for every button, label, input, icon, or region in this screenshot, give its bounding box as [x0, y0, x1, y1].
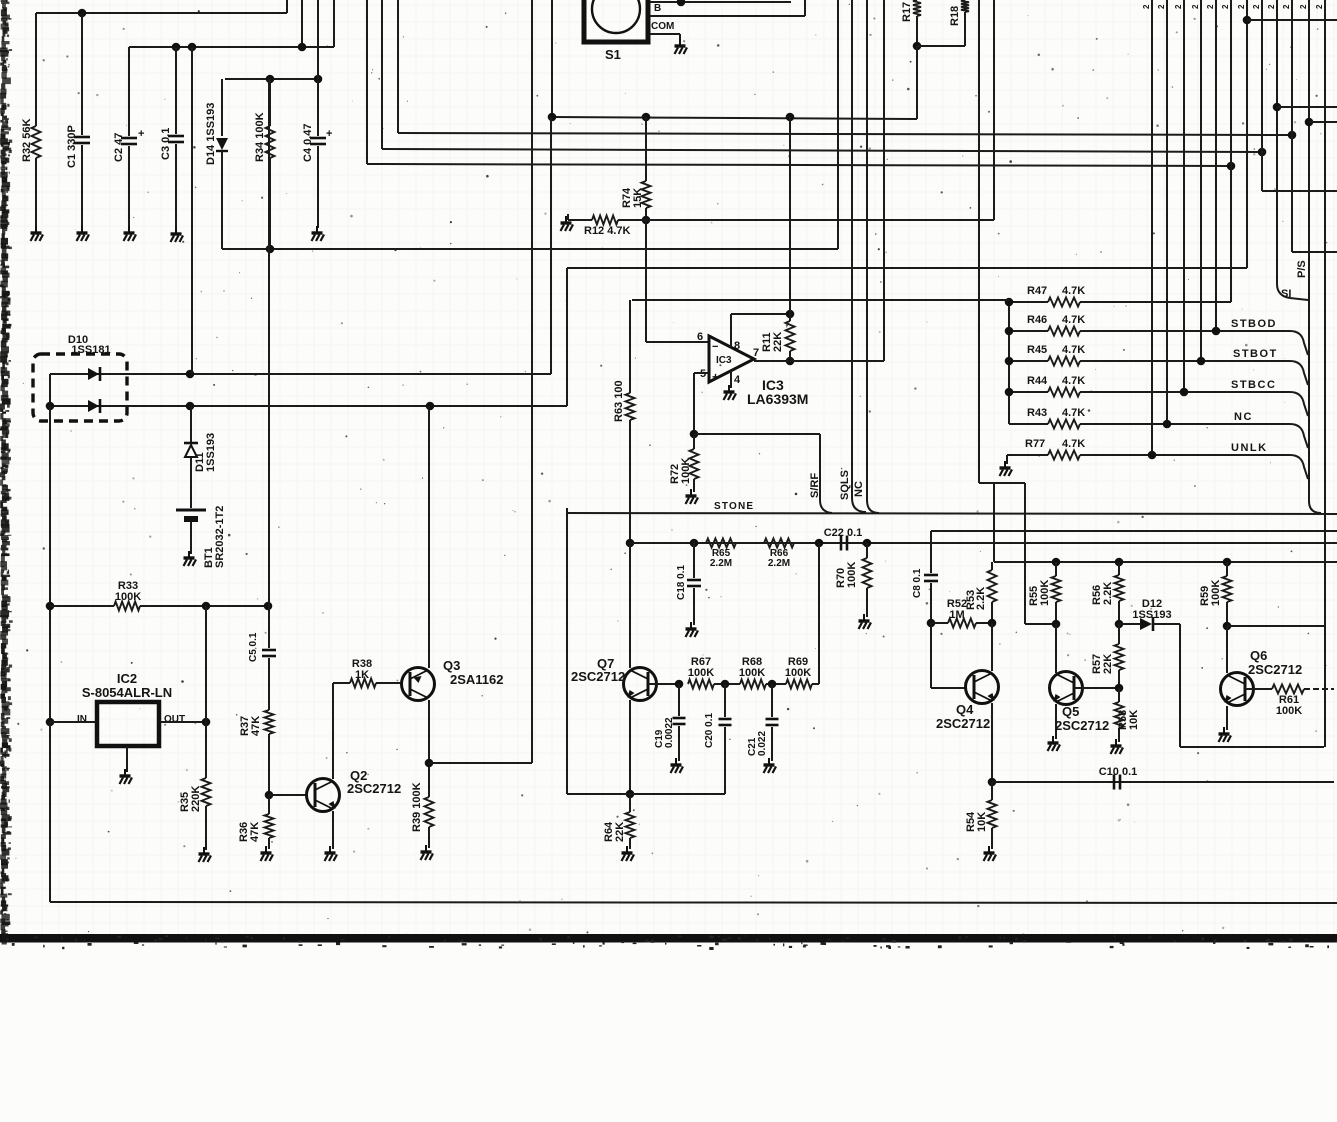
- wire IC2 IN: [50, 721, 97, 723]
- svg-text:+: +: [712, 370, 719, 384]
- wire D10 left tie x=50: [49, 374, 51, 406]
- resistor R34 100K: [269, 79, 271, 126]
- wire S1 pin B y=16: [650, 15, 805, 17]
- node (679,684): [675, 680, 684, 689]
- wire nested bus outer horizontal y=164: [367, 164, 1231, 166]
- svg-text:LA6393M: LA6393M: [747, 391, 808, 407]
- wire x=269 rail from top loop: [268, 79, 270, 648]
- wire bank bus x=1009: [1008, 300, 1010, 424]
- svg-text:2: 2: [1267, 4, 1276, 9]
- svg-text:R18: R18: [949, 6, 961, 26]
- svg-text:OUT: OUT: [164, 714, 185, 725]
- node (206,606): [202, 602, 211, 611]
- wire R43 row: [1080, 423, 1290, 425]
- node (1119,624): [1115, 620, 1124, 629]
- node (694,434): [690, 430, 699, 439]
- svg-text:10K: 10K: [1128, 710, 1140, 730]
- ground R12: [561, 216, 574, 231]
- svg-text:R45: R45: [1027, 344, 1047, 356]
- svg-text:R77: R77: [1025, 438, 1045, 450]
- wire Q5 collector: [1055, 624, 1057, 673]
- resistor R68 100K: [740, 680, 766, 689]
- wire vertical x=302 to top: [301, 0, 303, 47]
- wire pin4 stub + ground: [730, 371, 732, 388]
- node (917,46): [913, 42, 922, 51]
- wire x=532 rail from top: [531, 0, 533, 763]
- svg-text:100K: 100K: [115, 591, 141, 603]
- svg-text:Q6: Q6: [1250, 648, 1267, 663]
- svg-text:COM: COM: [651, 21, 674, 32]
- diode D14 1SS193: [221, 79, 223, 136]
- node (269,795): [265, 791, 274, 800]
- capacitor C22 0.1: [841, 536, 847, 551]
- node (190,374): [186, 370, 195, 379]
- wire IC2 OUT: [159, 721, 206, 723]
- svg-text:100K: 100K: [680, 458, 692, 484]
- svg-text:C3 0.1: C3 0.1: [160, 128, 172, 160]
- wire Q7 collector from R63: [629, 543, 631, 668]
- node (270,249): [266, 245, 275, 254]
- wire R17 junction down to y=119: [916, 46, 918, 119]
- wire Q7 base to R67 node: [648, 683, 679, 685]
- wire x=994 lower segment: [993, 483, 995, 562]
- svg-text:2: 2: [1299, 4, 1308, 9]
- wire D12 down and right: [1179, 624, 1181, 747]
- node (50,722): [46, 718, 55, 727]
- wire nested bus outer vertical x=367: [366, 0, 368, 164]
- svg-text:B: B: [654, 3, 661, 14]
- node (630,543): [626, 539, 635, 548]
- node (646,220): [642, 216, 651, 225]
- svg-text:100K: 100K: [1276, 705, 1302, 717]
- capacitor C19 0.0022: [678, 684, 680, 716]
- wire y=252 jog to right edge: [1292, 251, 1337, 253]
- ground R36: [261, 846, 274, 861]
- wire R47 row to x=1231: [1080, 301, 1231, 303]
- ground C1: [77, 226, 90, 241]
- ground R72: [686, 489, 699, 504]
- node (302,47): [298, 43, 307, 52]
- ground IC2: [120, 769, 133, 784]
- svg-text:2: 2: [1157, 4, 1166, 9]
- resistor R35 220K: [202, 778, 211, 806]
- ground R70: [859, 614, 872, 629]
- node (50,406): [46, 402, 55, 411]
- wire y=191 stub to right edge: [1262, 190, 1337, 192]
- wire pin8 stub: [730, 314, 732, 348]
- svg-text:2.2K: 2.2K: [1102, 582, 1114, 605]
- svg-text:4.7K: 4.7K: [1062, 407, 1085, 419]
- svg-text:47K: 47K: [250, 716, 262, 736]
- node (1262,152): [1258, 148, 1267, 157]
- wire Q6 collector: [1226, 626, 1228, 673]
- svg-text:R44: R44: [1027, 375, 1048, 387]
- svg-text:2SC2712: 2SC2712: [936, 716, 990, 731]
- wire C22 rail y=543: [630, 542, 1337, 544]
- svg-text:R43: R43: [1027, 407, 1047, 419]
- svg-text:47K: 47K: [249, 822, 261, 842]
- svg-text:10K: 10K: [976, 812, 988, 832]
- wire x=646 down to IC3 pin6 corner: [645, 220, 647, 342]
- resistor R39 100K: [425, 797, 434, 827]
- node (1009,331): [1005, 327, 1014, 336]
- wire S1 left rail x=552: [551, 0, 553, 117]
- diode D10 upper: [88, 368, 99, 380]
- node (50,606): [46, 602, 55, 611]
- resistor R47 4.7K: [1009, 301, 1048, 303]
- node (1119,688): [1115, 684, 1124, 693]
- node (1201,361): [1197, 357, 1206, 366]
- wire D10 top diode row y=374: [50, 373, 551, 375]
- svg-text:+: +: [326, 128, 332, 140]
- wire Q6 base + resistor R61 100K: [1245, 688, 1272, 690]
- svg-text:C1 330P: C1 330P: [66, 125, 78, 168]
- node (1231,166): [1227, 162, 1236, 171]
- resistor R57 22K: [1118, 624, 1120, 644]
- wire x=790 from S1 rail to R11: [789, 117, 791, 314]
- resistor R69 100K: [786, 680, 812, 689]
- capacitor C1 330P: [81, 13, 83, 135]
- svg-text:22K: 22K: [1102, 654, 1114, 674]
- svg-text:S/RF: S/RF: [809, 473, 821, 498]
- svg-text:2SC2712: 2SC2712: [347, 781, 401, 796]
- svg-text:C20 0.1: C20 0.1: [704, 713, 715, 748]
- wire top-left rail y=13: [36, 12, 287, 14]
- svg-text:2: 2: [1174, 4, 1183, 9]
- node (1292,135): [1288, 131, 1297, 140]
- resistor R77 4.7K: [1007, 454, 1048, 456]
- wire IC3 pin6 input y=342: [646, 341, 709, 343]
- node (992,782): [988, 778, 997, 787]
- wire y=626 to x=1325: [1227, 625, 1325, 627]
- ground R54: [984, 846, 997, 861]
- svg-text:100K: 100K: [1210, 580, 1222, 606]
- capacitor C10 0.1: [1114, 775, 1120, 790]
- node (725,684): [721, 680, 730, 689]
- svg-text:STBOD: STBOD: [1231, 318, 1277, 330]
- resistor R56 2.2K: [1118, 562, 1120, 575]
- svg-text:2.2K: 2.2K: [975, 587, 987, 610]
- resistor R54 10K: [991, 782, 993, 800]
- node (318,79): [314, 75, 323, 84]
- wire Q5 base: [1074, 687, 1119, 689]
- wire y=483 link: [979, 482, 1025, 484]
- svg-text:STBCC: STBCC: [1231, 379, 1276, 391]
- ground Q2: [325, 846, 338, 861]
- wire bus vertical x=838: [837, 0, 839, 249]
- resistor R55 100K: [1055, 562, 1057, 576]
- wire x=567 STONE box left: [566, 508, 568, 794]
- ground Q5: [1048, 736, 1061, 751]
- svg-text:4.7K: 4.7K: [1062, 375, 1085, 387]
- wire nested bus inner horizontal y=133: [398, 133, 1292, 135]
- ground Q6: [1219, 727, 1232, 742]
- svg-text:SR2032-1T2: SR2032-1T2: [214, 506, 226, 568]
- svg-text:8: 8: [734, 340, 740, 352]
- wire y=300 rail R63 to bank: [632, 299, 1009, 301]
- svg-text:R17: R17: [901, 2, 913, 22]
- svg-text:22K: 22K: [614, 822, 626, 842]
- ground R64: [622, 846, 635, 861]
- svg-text:UNLK: UNLK: [1231, 442, 1268, 454]
- wire R69 up to C22 node: [812, 683, 819, 685]
- svg-text:2.2M: 2.2M: [768, 558, 790, 569]
- wire C10 rail y=782: [992, 781, 1334, 783]
- svg-text:C4 0.47: C4 0.47: [302, 123, 314, 162]
- capacitor C20 0.1: [724, 684, 726, 717]
- node (992,623): [988, 619, 997, 628]
- svg-text:4: 4: [734, 374, 741, 386]
- node (1009,392): [1005, 388, 1014, 397]
- resistor R43 4.7K: [1009, 423, 1048, 425]
- node (646,117): [642, 113, 651, 122]
- svg-text:2: 2: [1191, 4, 1200, 9]
- wire bus vertical x=994 upper: [993, 0, 995, 220]
- svg-text:P/S: P/S: [1296, 260, 1308, 278]
- wire rail y=47: [129, 46, 334, 48]
- wire Q3 collector down: [428, 700, 430, 797]
- node (1247,20): [1243, 16, 1252, 25]
- wire Q4 collector: [991, 623, 993, 671]
- wire nested bus mid vertical x=382: [381, 0, 383, 149]
- wire Q4 base path: [930, 623, 932, 688]
- resistor R67 100K: [688, 680, 714, 689]
- svg-text:Q3: Q3: [443, 658, 460, 673]
- svg-text:SI: SI: [1281, 288, 1291, 300]
- svg-text:100K: 100K: [846, 562, 858, 588]
- wire D10 bottom diode row y=406: [50, 405, 567, 407]
- node (790,361): [786, 357, 795, 366]
- node (268,606): [264, 602, 273, 611]
- wire x=190 from top rail down: [191, 47, 193, 374]
- resistor R17: [913, 0, 921, 16]
- wire Q2 emitter down: [332, 811, 334, 849]
- wire R46 row: [1080, 330, 1290, 332]
- wire S1 COM: [650, 33, 680, 35]
- svg-text:NC: NC: [853, 481, 865, 497]
- wire x=630 R63 rail: [629, 300, 631, 393]
- wire Q4 emitter: [991, 703, 993, 782]
- svg-text:STBOT: STBOT: [1233, 348, 1278, 360]
- svg-text:IC3: IC3: [716, 355, 732, 366]
- svg-text:D14 1SS193: D14 1SS193: [205, 103, 217, 165]
- svg-text:2: 2: [1237, 4, 1246, 9]
- wire vertical x=1262: [1261, 0, 1263, 191]
- resistor R36 47K: [268, 795, 270, 814]
- svg-text:2: 2: [1206, 4, 1215, 9]
- svg-text:100K: 100K: [785, 667, 811, 679]
- node (1277,107): [1273, 103, 1282, 112]
- wire x=567 rail y268-406: [566, 268, 568, 406]
- wire S1 bottom rail y=117: [552, 117, 917, 119]
- capacitor C3 0.1: [175, 47, 177, 134]
- wire vertical x=318 from top: [317, 0, 319, 79]
- svg-text:4.7K: 4.7K: [1062, 344, 1085, 356]
- svg-text:2.2M: 2.2M: [710, 558, 732, 569]
- diode pack D10 1SS181 dashed box: [33, 354, 127, 421]
- svg-text:2SC2712: 2SC2712: [571, 669, 625, 684]
- node (430,406): [426, 402, 435, 411]
- node (1009,302): [1005, 298, 1014, 307]
- node (1150,455): [1148, 451, 1157, 460]
- svg-text:2SA1162: 2SA1162: [450, 672, 504, 687]
- svg-text:2: 2: [1221, 4, 1230, 9]
- resistor R63 100: [626, 393, 635, 420]
- svg-text:−: −: [712, 341, 718, 353]
- node (270,79): [266, 75, 275, 84]
- ground R58: [1111, 739, 1124, 754]
- capacitor C18 0.1: [693, 543, 695, 578]
- wire x=191 D11 branch: [190, 406, 192, 442]
- transistor Q2 2SC2712: [307, 779, 340, 812]
- resistor R53 2.2K: [991, 562, 993, 570]
- wire Q3 emitter to D10 line: [428, 406, 430, 668]
- node (681,2): [677, 0, 686, 6]
- node (552,117): [548, 113, 557, 122]
- svg-text:0.0022: 0.0022: [664, 717, 675, 748]
- ground C18: [686, 622, 699, 637]
- node (630,794): [626, 790, 635, 799]
- resistor R58 10K: [1118, 688, 1120, 702]
- svg-text:IC2: IC2: [117, 671, 137, 686]
- node (206,722): [202, 718, 211, 727]
- svg-text:0.022: 0.022: [757, 731, 768, 756]
- svg-text:1SS181: 1SS181: [71, 344, 110, 356]
- wire long rail y=249 from D14 loop to x=838: [222, 248, 838, 250]
- svg-text:IN: IN: [77, 714, 87, 725]
- resistor R65 2.2M: [706, 539, 736, 548]
- op-amp IC3 triangle: [709, 336, 754, 382]
- svg-text:Q4: Q4: [956, 702, 974, 717]
- svg-text:R39 100K: R39 100K: [411, 782, 423, 832]
- transistor Q6 2SC2712: [1221, 673, 1254, 706]
- svg-text:22K: 22K: [772, 332, 784, 352]
- svg-text:4.7K: 4.7K: [1062, 314, 1085, 326]
- wire bus vertical x=979: [978, 0, 980, 483]
- wire IC2 ground stub: [126, 746, 128, 772]
- resistor R18: [961, 0, 969, 12]
- svg-text:C22 0.1: C22 0.1: [824, 527, 863, 539]
- svg-text:Q5: Q5: [1062, 704, 1079, 719]
- diode D10 lower: [88, 400, 99, 412]
- svg-text:+: +: [138, 128, 144, 140]
- node (1309,122): [1305, 118, 1314, 127]
- svg-text:2: 2: [1315, 4, 1324, 9]
- wire vertical x=334 to top: [333, 0, 335, 47]
- wire vertical x=805 to top: [804, 0, 806, 16]
- wire y=107 stub to right edge: [1277, 106, 1337, 108]
- resistor R74 15K: [642, 181, 651, 208]
- wire vertical x=1309 P/S: [1308, 0, 1310, 501]
- svg-text:C18 0.1: C18 0.1: [676, 565, 687, 600]
- node (1216,331): [1212, 327, 1221, 336]
- svg-text:7: 7: [753, 347, 759, 359]
- svg-text:2SC2712: 2SC2712: [1248, 662, 1302, 677]
- wire R12 rail to x=994: [646, 219, 994, 221]
- wire bottom rail y=902: [50, 902, 1337, 903]
- wire x=646 down from S1 rail: [645, 117, 647, 181]
- ground C21: [764, 758, 777, 773]
- resistor R44 4.7K: [1009, 391, 1048, 393]
- transistor Q4 2SC2712: [966, 671, 999, 704]
- capacitor C5 0.1: [262, 650, 276, 656]
- wire vertical x=1325: [1324, 0, 1326, 747]
- svg-text:S1: S1: [605, 47, 621, 62]
- ground C2: [124, 226, 137, 241]
- wire S1 pin A y=2: [650, 1, 791, 3]
- ground C19: [671, 758, 684, 773]
- node (931,623): [927, 619, 936, 628]
- svg-text:R46: R46: [1027, 314, 1047, 326]
- wire IC3 output y=361: [754, 360, 884, 362]
- node (790,117): [786, 113, 795, 122]
- diode D11 1SS193: [184, 442, 198, 445]
- svg-text:2: 2: [1252, 4, 1261, 9]
- svg-text:2: 2: [1142, 4, 1151, 9]
- node (192,47): [188, 43, 197, 52]
- wire vertical x=1247: [1246, 0, 1248, 268]
- resistor R59 100K: [1226, 562, 1228, 576]
- svg-text:1SS193: 1SS193: [205, 433, 217, 472]
- svg-text:2SC2712: 2SC2712: [1055, 718, 1109, 733]
- node junction (82,13): [78, 9, 87, 18]
- wire vertical x=287 to top: [286, 0, 288, 13]
- wire R18 to R17 junction y=46: [917, 45, 965, 47]
- ground C3: [171, 227, 184, 242]
- wire pin5 stub: [694, 372, 709, 374]
- node (1227,626): [1223, 622, 1232, 631]
- wire S/RF branch: [694, 433, 820, 435]
- node (694,543): [690, 539, 699, 548]
- wire R45 row: [1080, 360, 1290, 362]
- resistor R72 100K: [693, 434, 695, 449]
- IC regulator IC2 S-8054ALR-LN: [97, 702, 159, 746]
- resistor R64 22K: [629, 794, 631, 812]
- wire Q2 collector up to R38: [332, 683, 334, 779]
- wire Q2 base: [269, 794, 308, 796]
- ground BT1: [184, 551, 197, 566]
- svg-text:C2 47: C2 47: [113, 133, 125, 162]
- wire vertical x=1292: [1291, 0, 1293, 252]
- resistor R70 100K: [866, 543, 868, 558]
- wire row: [714, 683, 740, 685]
- wire bus vertical x=867 NC: [866, 0, 868, 500]
- wire x=50 rail down: [49, 406, 51, 902]
- node (1056,624): [1052, 620, 1061, 629]
- svg-text:4.7K: 4.7K: [1062, 285, 1085, 297]
- resistor R11 22K: [789, 314, 791, 321]
- svg-text:STONE: STONE: [714, 501, 754, 512]
- node (1167,424): [1163, 420, 1172, 429]
- cut top labels right bus: [1142, 4, 1324, 9]
- resistor R45 4.7K: [1009, 360, 1048, 362]
- svg-text:1K: 1K: [355, 669, 369, 681]
- node (429,763): [425, 759, 434, 768]
- node (772,684): [768, 680, 777, 689]
- wire y=624 link 1025 to R55: [1025, 623, 1056, 625]
- wire y=268 rail from x=567 to x=1247: [567, 267, 1247, 269]
- ground R35: [199, 847, 212, 862]
- transistor Q3 2SA1162: [402, 668, 435, 701]
- capacitor C8 0.1: [930, 531, 932, 573]
- resistor R46 4.7K: [1009, 330, 1048, 332]
- page border left noise band: [0, 0, 13, 944]
- ground R39: [421, 845, 434, 860]
- transistor Q5 2SC2712: [1050, 672, 1083, 705]
- wire y=763 to x=532: [429, 762, 532, 764]
- resistor R52 1M: [931, 622, 948, 624]
- wire rail y=79 D14/R34/C4: [225, 78, 318, 80]
